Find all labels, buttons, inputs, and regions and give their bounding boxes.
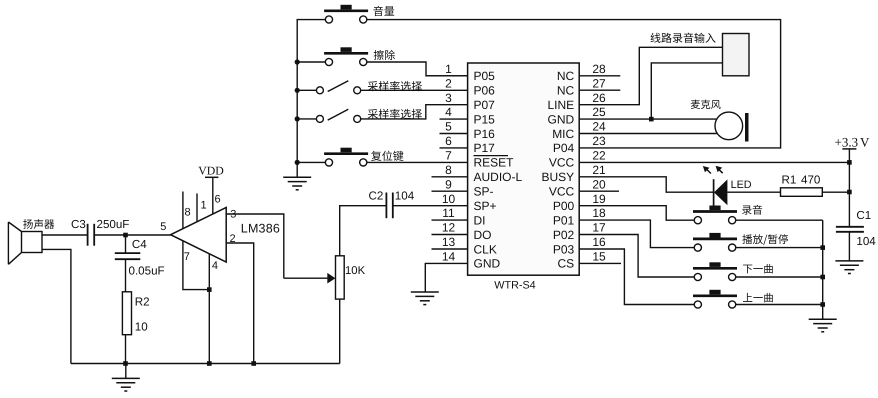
label Yang Sheng Qi (speaker)	[23, 219, 54, 229]
VDD bar	[205, 176, 218, 178]
wire speaker to C3	[42, 234, 88, 236]
svg-text:R2: R2	[135, 295, 150, 308]
wire pin25 branch to line-in connector	[651, 63, 722, 119]
svg-text:24: 24	[592, 120, 606, 134]
svg-text:P17: P17	[474, 141, 496, 155]
wire erase button to pin1 P05	[367, 62, 468, 76]
svg-text:18: 18	[592, 206, 606, 220]
pin 1 stub (P05)	[426, 75, 468, 77]
svg-text:P02: P02	[553, 228, 575, 242]
svg-text:25: 25	[592, 105, 606, 119]
+3.3V T-bar	[842, 148, 856, 150]
label Xia Yi Qu (next track)	[743, 264, 773, 273]
svg-text:6: 6	[215, 194, 221, 206]
pin 8 stub (AUDIO-L)	[432, 176, 468, 178]
svg-text:104: 104	[395, 189, 415, 202]
svg-text:104: 104	[856, 235, 876, 248]
svg-text:10: 10	[135, 320, 148, 333]
wire record button to right rail	[736, 219, 823, 221]
LM386 pin4 wire to rail	[208, 254, 210, 364]
label Mai Ke Feng (microphone)	[691, 100, 721, 109]
pin 15 stub (CS)	[579, 262, 621, 264]
svg-text:AUDIO-L: AUDIO-L	[474, 170, 523, 184]
wire reset button left to bus	[297, 161, 325, 163]
wire pin18 P01 to play/pause button	[579, 220, 694, 248]
junction on bus at switch S3	[295, 116, 300, 121]
label Xian Lu Lu Yin Shu Ru (line record input)	[651, 33, 716, 43]
svg-text:CLK: CLK	[474, 242, 497, 256]
svg-text:22: 22	[592, 149, 606, 163]
wire C1 to ground	[848, 232, 850, 261]
ground at chip pin14	[411, 292, 439, 305]
svg-text:GND: GND	[474, 257, 501, 271]
wire pin24 MIC to microphone	[579, 133, 718, 135]
pin 11 stub (DI)	[432, 219, 468, 221]
LM386 pin3 wire to pot wiper	[226, 214, 284, 278]
ground at left bus bottom	[283, 162, 311, 189]
svg-text:8: 8	[445, 163, 452, 177]
svg-text:7: 7	[184, 251, 190, 263]
svg-text:5: 5	[160, 221, 166, 233]
svg-text:4: 4	[445, 105, 452, 119]
pot wiper arrow	[284, 273, 336, 284]
svg-text:P00: P00	[553, 199, 575, 213]
wire switch S2 to pin2 P06	[361, 89, 468, 91]
svg-text:P03: P03	[553, 242, 575, 256]
wire pin14 GND to ground	[425, 263, 467, 292]
capacitor C2 plates	[386, 193, 392, 219]
junction R1 on rail	[847, 190, 852, 195]
svg-text:16: 16	[592, 235, 606, 249]
svg-text:VCC: VCC	[549, 156, 575, 170]
speaker LS1 (Yang Sheng Qi)	[8, 222, 42, 264]
wire R2 to ground rail	[125, 335, 127, 364]
resistor R2 body	[122, 292, 131, 335]
svg-text:26: 26	[592, 91, 606, 105]
svg-text:5: 5	[445, 120, 452, 134]
svg-text:SP+: SP+	[474, 199, 497, 213]
wire next button to right rail	[736, 276, 823, 278]
wire R1 to rail	[822, 191, 849, 193]
svg-text:3: 3	[445, 91, 452, 105]
junction on bus at switch S2	[295, 88, 300, 93]
svg-text:17: 17	[592, 221, 606, 235]
svg-text:14: 14	[442, 250, 456, 264]
wire pin26 LINE to line-in connector	[579, 47, 722, 104]
svg-text:VDD: VDD	[198, 164, 224, 178]
WTR-S4 chip U1 body	[468, 63, 580, 275]
label Ca Chu (erase)	[374, 50, 395, 60]
junction R2 on rail	[123, 361, 128, 366]
pot bottom wire to rail	[339, 299, 341, 363]
+3.3V rail wire	[848, 149, 850, 227]
push button S1 volume (Yin Liang)	[324, 5, 368, 23]
right buttons ground rail	[822, 220, 824, 319]
junction on bus at erase button	[295, 59, 300, 64]
svg-text:13: 13	[442, 235, 456, 249]
pin 12 stub (DO)	[432, 234, 468, 236]
svg-text:NC: NC	[557, 69, 575, 83]
svg-text:4: 4	[212, 260, 218, 272]
wire pin16 P03 to prev button	[579, 249, 694, 305]
label Fu Wei Jian (reset key)	[371, 151, 403, 161]
svg-text:WTR-S4: WTR-S4	[494, 280, 535, 292]
pot top wire to C2	[340, 206, 387, 256]
svg-text:V: V	[860, 135, 870, 150]
capacitor C1 plates	[836, 227, 864, 232]
wire reset button to pin7 RESET	[367, 161, 468, 163]
LM386 pin7 wire	[183, 241, 209, 290]
junction node C3/C4	[123, 233, 128, 238]
wire pin21 BUSY to LED	[579, 177, 713, 192]
svg-text:250uF: 250uF	[97, 218, 130, 231]
svg-text:P15: P15	[474, 112, 496, 126]
wire switch S3 left to bus	[297, 118, 316, 120]
pin 27 stub (NC)	[579, 89, 620, 91]
LED D1 arrows	[703, 166, 723, 174]
left bus wire	[297, 20, 325, 163]
switch S2 sample-rate select	[316, 81, 360, 94]
svg-text:DO: DO	[474, 228, 492, 242]
LED D1 triangle	[714, 179, 727, 205]
push button S4 erase (Ca Chu)	[324, 47, 368, 65]
pin 9 stub (SP-)	[432, 190, 468, 192]
svg-text:LINE: LINE	[548, 98, 575, 112]
pin 20 stub (VCC)	[579, 190, 619, 192]
svg-text:VCC: VCC	[549, 185, 575, 199]
svg-text:P07: P07	[474, 98, 496, 112]
svg-text:8: 8	[185, 207, 191, 219]
pin 6 stub (P17)	[440, 147, 468, 149]
svg-text:11: 11	[442, 206, 455, 220]
svg-text:DI: DI	[474, 213, 486, 227]
pin23 stub wire	[579, 147, 620, 149]
svg-text:20: 20	[592, 177, 606, 191]
wire C2 to pin10 SP+	[393, 205, 468, 207]
svg-text:21: 21	[592, 163, 606, 177]
junction prev on rail	[820, 302, 825, 307]
capacitor C3 plates	[88, 224, 95, 246]
wire prev button to right rail	[736, 304, 823, 306]
svg-text:BUSY: BUSY	[542, 170, 575, 184]
svg-text:C3: C3	[71, 218, 86, 231]
wire volume button to pin23 P04 (top loop)	[367, 20, 781, 148]
svg-text:12: 12	[442, 221, 456, 235]
svg-text:15: 15	[592, 250, 606, 264]
wire switch S2 left to bus	[297, 89, 316, 91]
junction pin7/pin4	[207, 287, 212, 292]
capacitor C4 plates	[115, 253, 141, 259]
svg-text:1: 1	[201, 200, 207, 212]
LM386 pin6 wire (VDD)	[212, 177, 214, 214]
wire speaker bottom to rail	[42, 249, 71, 363]
chip pin label RESET (active low, pin 7)	[474, 156, 515, 170]
label Lu Yin (record)	[742, 205, 762, 215]
wire pin19 P00 to record button	[579, 206, 694, 221]
wire down to C4	[125, 235, 127, 253]
resistor R1 body	[781, 188, 823, 197]
ground at bottom rail	[112, 364, 140, 392]
svg-text:LM386: LM386	[241, 221, 280, 235]
svg-text:+3.3: +3.3	[835, 135, 859, 150]
label Cai Yang Lv Xuan Ze (sample rate select) 2	[368, 109, 422, 119]
svg-text:P04: P04	[553, 141, 575, 155]
svg-text:MIC: MIC	[552, 127, 574, 141]
svg-text:1: 1	[445, 62, 452, 76]
svg-text:P05: P05	[474, 69, 496, 83]
line-in connector J1	[723, 34, 750, 76]
svg-text:C2: C2	[369, 189, 384, 202]
pin 4 stub (P15)	[440, 118, 468, 120]
wire erase button left to bus	[297, 61, 325, 63]
wire play/pause button to right rail	[736, 247, 823, 249]
ground at right buttons rail	[809, 319, 837, 332]
potentiometer RP1 body	[336, 256, 345, 299]
wire C4 to R2	[125, 259, 127, 292]
svg-text:RESET: RESET	[474, 156, 515, 170]
wire C3 to LM386 pin5	[94, 234, 170, 236]
switch S3 sample-rate select	[316, 109, 360, 122]
junction pin25 branch	[649, 117, 654, 122]
svg-text:0.05uF: 0.05uF	[129, 264, 165, 277]
svg-text:27: 27	[592, 76, 606, 90]
wire LED to R1	[727, 191, 780, 193]
svg-text:19: 19	[592, 192, 606, 206]
push button S7 play/pause (Bo Fang/Zan Ting)	[693, 233, 737, 251]
LM386 pin1 stub	[196, 193, 198, 221]
push button S6 record (Lu Yin)	[693, 206, 737, 224]
pin 5 stub (P16)	[440, 133, 468, 135]
pin 28 stub (NC)	[579, 75, 620, 77]
label Cai Yang Lv Xuan Ze (sample rate select) 1	[368, 81, 422, 91]
svg-text:470: 470	[801, 174, 820, 187]
svg-text:28: 28	[592, 62, 606, 76]
junction pin2 on rail	[251, 361, 256, 366]
LM386 pin8 stub	[182, 192, 184, 229]
junction play/pause on rail	[820, 245, 825, 250]
microphone MK1 circle	[715, 112, 743, 140]
LM386 pin2 wire to rail	[226, 243, 254, 364]
label Bo Fang/Zan Ting (play/pause)	[742, 234, 788, 245]
svg-text:GND: GND	[548, 112, 575, 126]
wire pin25 GND to microphone	[579, 118, 716, 120]
label Shang Yi Qu (prev track)	[743, 293, 773, 302]
push button S5 reset (Fu Wei Jian)	[324, 148, 368, 166]
wire switch S3 to pin3 P07	[361, 105, 468, 119]
svg-text:CS: CS	[558, 257, 575, 271]
wire pin22 VCC to +3.3V rail	[579, 161, 849, 163]
wire pin17 P02 to next button	[579, 235, 694, 278]
svg-text:10: 10	[442, 192, 456, 206]
svg-text:2: 2	[445, 76, 452, 90]
op-amp U2 LM386 triangle	[171, 208, 227, 263]
push button S8 next (Xia Yi Qu)	[693, 262, 737, 280]
svg-text:6: 6	[445, 134, 452, 148]
svg-text:10K: 10K	[345, 265, 366, 277]
svg-text:C4: C4	[132, 238, 147, 251]
microphone MK1 bar	[745, 113, 749, 142]
junction pin4 on rail	[207, 361, 212, 366]
push button S9 prev (Shang Yi Qu)	[693, 290, 737, 308]
junction VCC on rail	[847, 160, 852, 165]
label Yin Liang (volume)	[373, 6, 394, 16]
svg-text:9: 9	[445, 177, 452, 191]
ground rail wire	[71, 363, 340, 365]
svg-text:7: 7	[445, 149, 452, 163]
svg-text:C1: C1	[856, 209, 871, 222]
svg-text:23: 23	[592, 134, 606, 148]
svg-text:P01: P01	[553, 213, 575, 227]
svg-text:P06: P06	[474, 84, 496, 98]
svg-text:NC: NC	[557, 84, 575, 98]
pin 13 stub (CLK)	[432, 248, 468, 250]
svg-text:R1: R1	[782, 174, 797, 187]
LED D1 cathode bar	[713, 179, 715, 206]
svg-text:SP-: SP-	[474, 185, 494, 199]
svg-text:P16: P16	[474, 127, 496, 141]
junction on bus at reset button	[295, 160, 300, 165]
svg-text:LED: LED	[731, 179, 752, 191]
junction next on rail	[820, 275, 825, 280]
ground at C1	[835, 261, 863, 274]
